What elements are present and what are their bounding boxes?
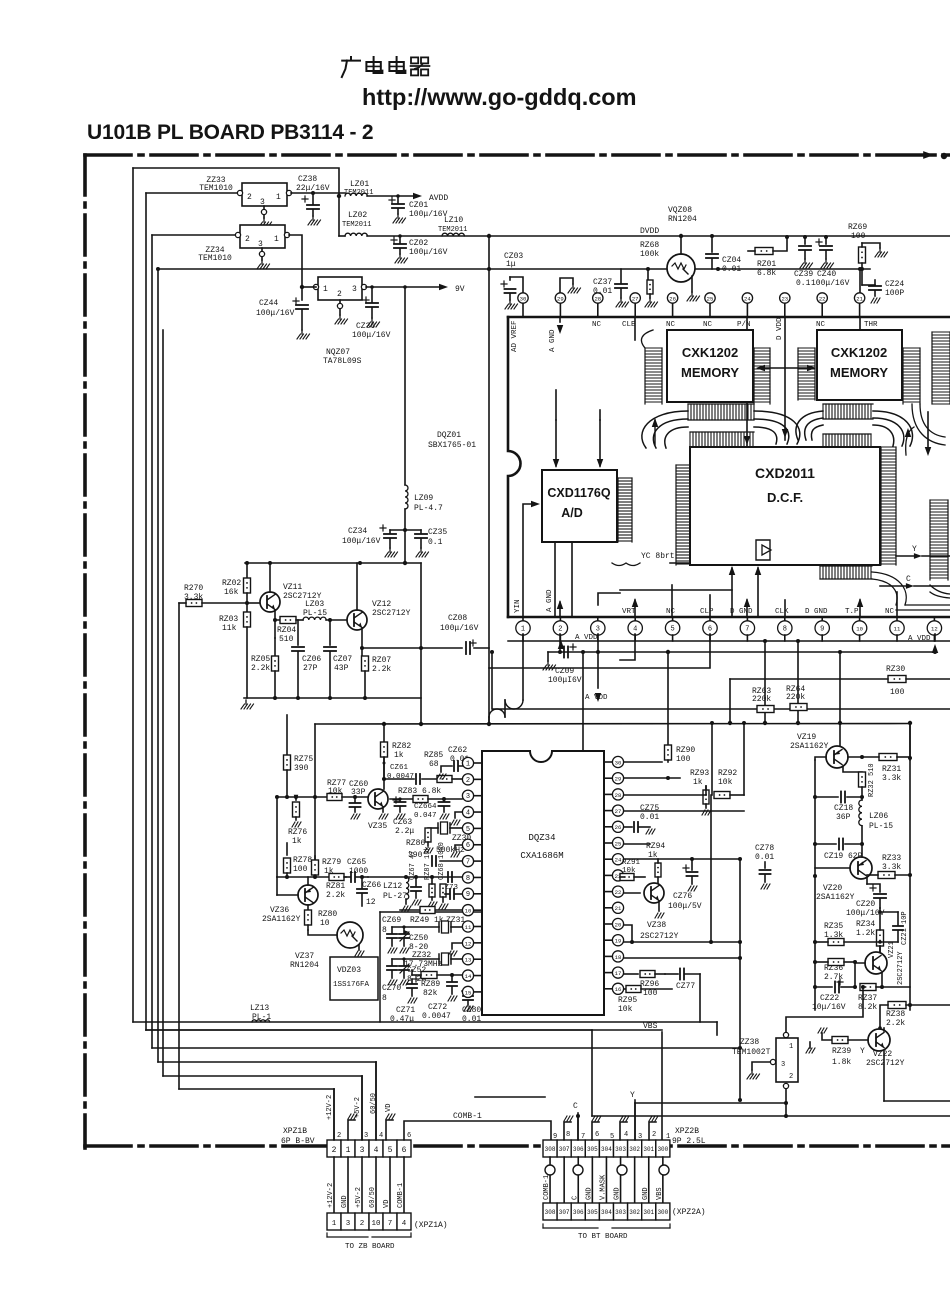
svg-text:VZ19: VZ19 — [797, 733, 816, 742]
svg-text:3: 3 — [466, 793, 470, 801]
wire long y1116 — [592, 1115, 950, 1117]
wire pin24 row — [624, 857, 742, 861]
svg-text:8: 8 — [566, 1131, 570, 1139]
svg-text:CZ78: CZ78 — [755, 844, 774, 853]
svg-text:CZ664: CZ664 — [414, 803, 437, 811]
label D GND pin9 — [805, 608, 828, 616]
svg-text:2: 2 — [332, 1146, 337, 1155]
svg-text:27P: 27P — [303, 664, 318, 673]
svg-text:RZ39: RZ39 — [832, 1047, 851, 1056]
svg-text:A/D: A/D — [561, 506, 583, 520]
svg-text:305: 305 — [587, 1146, 598, 1153]
label VD above — [385, 1104, 393, 1112]
ground CZ34 — [385, 548, 398, 557]
svg-text:0.1: 0.1 — [796, 279, 811, 288]
wire pin10 row — [400, 907, 462, 914]
label CZ36 — [352, 322, 391, 340]
svg-text:308: 308 — [545, 1209, 556, 1216]
svg-text:2: 2 — [789, 1073, 793, 1081]
svg-text:CZ72: CZ72 — [428, 1003, 447, 1012]
svg-text:10: 10 — [320, 919, 330, 928]
wire left bus 3 (ZZ34 input) — [152, 235, 238, 1062]
svg-text:VQZ08: VQZ08 — [668, 206, 692, 215]
wire yc to dcf — [670, 563, 897, 617]
resistor RZ96 100 — [624, 971, 665, 999]
wire box right edge x592 — [591, 1030, 593, 1116]
svg-text:16: 16 — [615, 986, 622, 993]
svg-text:VZ38: VZ38 — [647, 921, 666, 930]
label NC pin5 — [666, 608, 676, 616]
svg-text:100k: 100k — [640, 250, 659, 259]
wire ZZ38 pin3 gnd — [747, 1062, 770, 1079]
wire left bus 5 — [162, 330, 164, 1076]
svg-text:2SC2712Y: 2SC2712Y — [640, 932, 679, 941]
capacitor CZ77 — [665, 969, 700, 1023]
label XPZ2B 9P 2.5L — [672, 1127, 706, 1146]
svg-text:9: 9 — [466, 891, 470, 899]
wire DVDD rail — [339, 234, 950, 238]
svg-text:COMB-1: COMB-1 — [397, 1183, 405, 1208]
svg-text:AD VREF: AD VREF — [511, 320, 519, 352]
capacitor CZ07 43P — [324, 620, 352, 698]
svg-text:VZ36: VZ36 — [270, 906, 289, 915]
resistor RZ75 390 — [284, 715, 314, 799]
svg-text:6: 6 — [708, 625, 712, 633]
svg-text:28: 28 — [594, 295, 601, 302]
svg-text:21: 21 — [615, 905, 622, 912]
resistor RZ38 2.2k — [880, 1002, 950, 1029]
svg-text:RZ05: RZ05 — [251, 655, 270, 664]
svg-text:RZ93: RZ93 — [690, 769, 709, 778]
svg-text:RZ78: RZ78 — [293, 856, 312, 865]
svg-text:3: 3 — [638, 1133, 642, 1141]
svg-text:2: 2 — [466, 777, 470, 785]
svg-text:1: 1 — [332, 1220, 337, 1228]
wire VZ11 emitter node — [273, 610, 280, 622]
resistor RZ39 1.8k — [832, 1037, 868, 1068]
svg-text:SBX1765-01: SBX1765-01 — [428, 441, 476, 450]
svg-text:Y: Y — [860, 1047, 865, 1056]
label CZ01 — [409, 201, 448, 219]
svg-text:CZ34: CZ34 — [348, 527, 367, 536]
label P/N pin24 — [737, 317, 751, 447]
svg-text:11k: 11k — [222, 624, 237, 633]
wire A VDD down arrow — [585, 652, 608, 702]
connector XPZ2A — [543, 1203, 670, 1220]
svg-text:RZ96: RZ96 — [640, 980, 659, 989]
svg-text:COMB-1: COMB-1 — [453, 1112, 482, 1121]
bracket TO ZB BOARD — [327, 1233, 411, 1251]
svg-text:DVDD: DVDD — [640, 227, 659, 236]
wire top rail to DVDD corner — [133, 168, 339, 236]
label CZ44 — [256, 299, 295, 318]
svg-text:2SC2712Y: 2SC2712Y — [897, 951, 905, 985]
capacitor CZ20 100u/16V — [846, 885, 886, 918]
svg-text:CLP: CLP — [700, 608, 714, 616]
svg-text:304: 304 — [601, 1146, 612, 1153]
inductor LZ13 PL-1 — [250, 1004, 271, 1022]
label YC 8brt — [612, 552, 675, 566]
svg-text:TEM1002T: TEM1002T — [732, 1048, 771, 1057]
svg-text:RZ37: RZ37 — [858, 994, 877, 1003]
svg-text:30: 30 — [520, 295, 527, 302]
svg-text:GND: GND — [614, 1187, 622, 1200]
label NC pin11 — [885, 608, 895, 616]
wire 9V output — [366, 284, 465, 294]
svg-text:VZ21: VZ21 — [888, 941, 896, 958]
svg-text:18: 18 — [615, 954, 622, 961]
capacitor CZ664 0.047 — [414, 799, 450, 820]
capacitor CZ69 8 — [382, 916, 401, 935]
svg-text:10μ/16V: 10μ/16V — [812, 1003, 846, 1012]
svg-text:2SA1162Y: 2SA1162Y — [790, 742, 829, 751]
svg-text:302: 302 — [629, 1209, 640, 1216]
svg-text:7: 7 — [466, 859, 470, 867]
svg-text:A VDD: A VDD — [575, 634, 598, 642]
wire DVDD drop x489 — [488, 236, 490, 724]
resistor RZ91 10k — [620, 859, 645, 881]
transistor VZ22 2SC2712Y — [866, 1026, 950, 1101]
transistor VZ37 RN1204 — [290, 922, 364, 970]
wire bend y1089 — [179, 1089, 334, 1140]
svg-text:10k: 10k — [718, 778, 733, 787]
svg-text:ZZ38: ZZ38 — [740, 1038, 759, 1047]
capacitor CZ06 27P — [292, 620, 321, 698]
wire LZ03 to VZ12 base — [326, 618, 347, 622]
inductor LZ01 TEM2011 — [344, 180, 373, 197]
capacitor CZ75 0.01 — [624, 804, 659, 834]
wire LZ09 to rail — [403, 509, 407, 565]
svg-text:RZ69: RZ69 — [848, 223, 867, 232]
capacitor CZ66 12 — [357, 877, 381, 907]
svg-text:22: 22 — [615, 889, 622, 896]
svg-text:2SC2712Y: 2SC2712Y — [866, 1059, 905, 1068]
label T.P — [845, 598, 863, 617]
svg-text:RZ32 510: RZ32 510 — [868, 763, 876, 797]
svg-text:+12V-2: +12V-2 — [326, 1095, 334, 1120]
svg-text:304: 304 — [601, 1209, 612, 1216]
wire right col left rail — [813, 760, 817, 1010]
svg-text:T.P: T.P — [845, 608, 859, 616]
svg-text:14: 14 — [465, 973, 472, 980]
svg-text:CZ70: CZ70 — [382, 984, 401, 993]
label CZ38 22u/16V — [296, 175, 330, 193]
svg-text:60/50: 60/50 — [370, 1093, 378, 1114]
svg-text:RZ85: RZ85 — [424, 751, 443, 760]
resistor RZ82 1k — [381, 724, 412, 781]
svg-text:+5V-2: +5V-2 — [354, 1097, 362, 1118]
svg-text:1: 1 — [466, 760, 470, 768]
resistor RZ87 15k — [424, 846, 437, 907]
ground CZ38 — [308, 216, 321, 225]
svg-text:XPZ2B: XPZ2B — [675, 1127, 699, 1136]
wire bend y1062 — [158, 1062, 376, 1140]
svg-text:19: 19 — [615, 938, 622, 945]
svg-text:NC: NC — [666, 321, 676, 329]
svg-text:R270: R270 — [184, 584, 203, 593]
svg-text:5: 5 — [610, 1133, 614, 1141]
wire XPZ1B pin6 comb — [404, 1121, 551, 1140]
svg-text:RZ83 6.8k: RZ83 6.8k — [398, 787, 441, 796]
crystal ZZ31 — [392, 916, 465, 933]
inductor LZ02 TEM2011 — [342, 211, 371, 236]
label CLK — [775, 600, 789, 617]
resistor RZ68 100k — [640, 241, 659, 307]
svg-text:CZ50: CZ50 — [409, 934, 428, 943]
wire XPZ2B 306 up C — [577, 1113, 579, 1140]
capacitor CZ24 100P — [862, 280, 904, 303]
svg-text:CZ77: CZ77 — [676, 982, 695, 991]
svg-text:303: 303 — [615, 1146, 626, 1153]
wire y877 row — [277, 875, 346, 879]
svg-text:RZ79: RZ79 — [322, 858, 341, 867]
page url text — [362, 84, 637, 110]
svg-text:100μ/16V: 100μ/16V — [409, 210, 448, 219]
ribbon mem2 left — [798, 348, 815, 400]
wire pin4 down — [620, 634, 635, 660]
wire AVDD bus y652 — [548, 650, 937, 654]
svg-text:TO ZB BOARD: TO ZB BOARD — [345, 1243, 395, 1251]
svg-text:1: 1 — [521, 625, 525, 633]
svg-text:GND: GND — [585, 1187, 593, 1200]
svg-text:30: 30 — [615, 759, 622, 766]
capacitor CZ60 33P — [342, 780, 368, 819]
wire y797 row — [275, 795, 327, 799]
capacitor CZ38 — [302, 193, 319, 216]
resistor RZ36 2.7k — [815, 959, 865, 988]
wire left bus 1 vertical x133 — [132, 168, 134, 1022]
wire pin2 to 652 — [558, 634, 565, 652]
svg-text:CZ02: CZ02 — [409, 239, 428, 248]
svg-text:100μ/5V: 100μ/5V — [668, 902, 702, 911]
label CZ34 — [342, 527, 381, 546]
svg-text:306: 306 — [573, 1146, 584, 1153]
svg-text:CZ08: CZ08 — [448, 614, 467, 623]
svg-text:CZ01: CZ01 — [409, 201, 428, 210]
svg-text:9: 9 — [553, 1133, 557, 1141]
capacitor CZ72 0.0047 — [422, 975, 457, 1021]
wire vz35 top rail y724 — [315, 722, 910, 726]
svg-text:VRT: VRT — [622, 608, 636, 616]
svg-text:THR: THR — [864, 321, 878, 329]
ribbon loop mem1 to dcf — [642, 411, 800, 448]
capacitor CZ40 100u/16V — [811, 235, 850, 288]
svg-text:9V: 9V — [455, 285, 465, 294]
svg-text:27: 27 — [615, 808, 622, 815]
capacitor CZ08 100u/16V — [440, 614, 489, 654]
hybrid bottom pins 1-12 — [508, 617, 950, 643]
svg-text:1μ: 1μ — [506, 260, 516, 269]
svg-text:2.2k: 2.2k — [886, 1019, 905, 1028]
svg-text:D GND: D GND — [730, 608, 753, 616]
wire YIN loop — [489, 634, 523, 724]
resistor RZ03 11k — [219, 603, 251, 698]
svg-text:(XPZ2A): (XPZ2A) — [672, 1208, 706, 1217]
wire arrows into dcf bottom — [620, 566, 761, 617]
capacitor CZ63 2.2u — [393, 797, 414, 836]
svg-text:0.01: 0.01 — [722, 265, 741, 274]
wire pin29 net — [624, 776, 680, 780]
svg-text:300: 300 — [657, 1209, 668, 1216]
ribbon mem1 bottom — [688, 404, 754, 420]
svg-text:307: 307 — [559, 1146, 570, 1153]
svg-text:PL-27: PL-27 — [383, 892, 407, 901]
svg-text:PL-4.7: PL-4.7 — [414, 504, 443, 513]
resistor RZ80 10 — [305, 905, 338, 930]
bracket TO BT BOARD — [543, 1224, 670, 1241]
wire mem1-mem2 double arrow — [756, 365, 816, 372]
resistor RZ04 510 — [277, 617, 296, 645]
svg-text:302: 302 — [629, 1146, 640, 1153]
svg-text:220k: 220k — [752, 695, 771, 704]
ribbon dcf right — [881, 447, 896, 565]
ground hook XPZ1B pin5 — [386, 1114, 395, 1140]
svg-text:2: 2 — [337, 1132, 341, 1140]
svg-text:RZ75: RZ75 — [294, 755, 313, 764]
wire ZZ34 output to DVDD line — [289, 235, 304, 289]
ribbon dcf bottom loop — [872, 572, 950, 610]
svg-text:RZ82: RZ82 — [392, 742, 411, 751]
svg-text:NC: NC — [666, 608, 676, 616]
svg-text:3: 3 — [346, 1220, 351, 1228]
connector XPZ2B — [543, 1140, 670, 1157]
IC ZZ38 TEM1002T — [770, 1032, 798, 1088]
svg-text:8: 8 — [783, 625, 787, 633]
inductor LZ06 PL-15 — [859, 797, 893, 844]
capacitor CZ80 0.01 — [462, 991, 481, 1024]
resistor RZ64 220k — [786, 641, 807, 723]
transistor VZ12 2SC2712Y — [347, 563, 411, 630]
transistor VZ11 2SC2712Y — [247, 563, 322, 612]
svg-text:VDZ03: VDZ03 — [337, 966, 361, 975]
svg-text:1k: 1k — [394, 751, 404, 760]
svg-text:CZ71: CZ71 — [396, 1006, 415, 1015]
resistor RZ93 1k — [624, 769, 711, 815]
svg-text:100μ/16V: 100μ/16V — [846, 909, 885, 918]
svg-text:CLK: CLK — [775, 608, 789, 616]
ground hook pin29 — [560, 278, 581, 293]
svg-text:10: 10 — [465, 908, 472, 915]
svg-text:CZ69: CZ69 — [382, 916, 401, 925]
wire right column rail items — [581, 650, 912, 760]
svg-text:7: 7 — [745, 625, 749, 633]
svg-text:2.2k: 2.2k — [251, 664, 270, 673]
label A GND pin29 — [549, 317, 563, 352]
ribbon dcf top right — [823, 434, 871, 448]
svg-text:29: 29 — [557, 295, 564, 302]
svg-text:2SA1162Y: 2SA1162Y — [816, 893, 855, 902]
svg-text:2: 2 — [245, 235, 250, 244]
resistor RZ69 100 — [848, 223, 888, 285]
wire arrows into adc top — [553, 390, 604, 468]
svg-text:LZ10: LZ10 — [444, 216, 463, 225]
svg-text:CZ65: CZ65 — [347, 858, 366, 867]
svg-text:CZ21 10P: CZ21 10P — [901, 911, 909, 945]
svg-text:Y: Y — [630, 1091, 635, 1100]
svg-text:12: 12 — [931, 625, 938, 632]
ground CZ36 — [367, 318, 380, 327]
capacitor CZ04 0.01 — [706, 234, 741, 274]
svg-text:22: 22 — [819, 295, 826, 302]
svg-text:82k: 82k — [423, 989, 438, 998]
svg-text:8: 8 — [466, 875, 470, 883]
svg-text:A VDD: A VDD — [908, 635, 931, 643]
svg-text:15: 15 — [465, 989, 472, 996]
svg-text:3: 3 — [781, 1061, 785, 1069]
svg-text:RZ76: RZ76 — [288, 828, 307, 837]
svg-text:CZ36: CZ36 — [356, 322, 375, 331]
capacitor CZ35 — [405, 530, 427, 548]
svg-text:0.1: 0.1 — [428, 538, 443, 547]
resistor RZ07 2.2k — [362, 648, 392, 698]
ribbon page right edge lower — [930, 500, 950, 598]
ribbon dcf bottom — [820, 566, 872, 579]
crystal ZZ30 500kHz — [428, 822, 471, 855]
svg-text:1: 1 — [274, 235, 279, 244]
resistor RZ86 390 — [406, 828, 433, 860]
svg-text:CXA1686M: CXA1686M — [520, 851, 563, 861]
wire pin18 row — [624, 956, 742, 960]
svg-text:33P: 33P — [351, 788, 366, 797]
svg-text:GND: GND — [341, 1195, 349, 1208]
wire bend y1048 — [152, 1046, 742, 1050]
hybrid top pins 30-21 — [518, 293, 865, 317]
svg-text:13: 13 — [465, 957, 472, 964]
ribbon dcf top left — [690, 432, 754, 447]
ground ZZ34 pin3 — [257, 260, 270, 269]
inductor LZ10 TEM2011 — [438, 216, 467, 236]
label (XPZ2A) — [672, 1208, 706, 1217]
IC U-mem1 CXK1202 MEMORY — [667, 330, 753, 402]
svg-text:2SA1162Y: 2SA1162Y — [262, 915, 301, 924]
resistor RZ90 100 — [624, 650, 695, 764]
svg-text:2.2k: 2.2k — [372, 665, 391, 674]
svg-text:43P: 43P — [334, 664, 349, 673]
svg-text:2: 2 — [337, 290, 342, 299]
svg-text:2SC2712Y: 2SC2712Y — [372, 609, 411, 618]
label DVDD — [487, 227, 660, 238]
svg-text:LZ12: LZ12 — [383, 882, 402, 891]
svg-text:3: 3 — [360, 1146, 365, 1155]
svg-text:10: 10 — [856, 625, 863, 632]
svg-text:0.01: 0.01 — [593, 287, 612, 296]
resistor RZ85 68 — [424, 751, 462, 783]
DQZ34 left pins 1-15 — [462, 757, 482, 997]
resistor RZ78 100 — [284, 843, 313, 877]
transistor VZ35 2SC2712Y — [368, 758, 388, 831]
svg-text:23: 23 — [781, 295, 788, 302]
wire y1097 stub — [475, 1096, 545, 1098]
svg-text:1k: 1k — [693, 778, 703, 787]
svg-text:YC 8brt: YC 8brt — [641, 552, 675, 561]
ribbon page right edge — [905, 332, 950, 456]
wire avdd line y709 — [490, 650, 950, 709]
svg-text:26: 26 — [615, 824, 622, 831]
label AD VREF — [511, 320, 519, 352]
resistor RZ81 2.2k — [326, 874, 345, 901]
ground CZ02 — [395, 254, 408, 263]
label CZ35 — [428, 528, 447, 547]
svg-text:100μ/16V: 100μ/16V — [256, 309, 295, 318]
svg-text:RZ01: RZ01 — [757, 260, 776, 269]
svg-text:A GND: A GND — [546, 589, 554, 612]
svg-text:CLE: CLE — [622, 321, 636, 329]
label +5V-2 above — [354, 1097, 362, 1118]
capacitor CZ68 1000 — [432, 842, 462, 882]
svg-text:1000: 1000 — [349, 867, 368, 876]
svg-text:COMB-1: COMB-1 — [543, 1175, 551, 1200]
svg-text:VZ11: VZ11 — [283, 583, 302, 592]
